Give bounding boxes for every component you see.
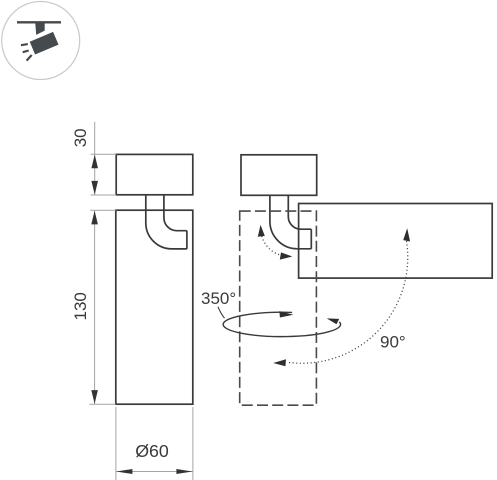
left view: mounting box — [116, 154, 193, 194]
dim D60: arrow left — [116, 469, 132, 474]
right view: arm socket line — [310, 229, 312, 249]
icon lamp body — [30, 32, 59, 55]
svg-text:Ø60: Ø60 — [135, 441, 169, 461]
right view: dashed body position rectangle — [240, 211, 317, 405]
icon ceiling line — [17, 21, 61, 23]
350 arrow right (top middle) — [279, 311, 293, 317]
dim 130: arrow down — [91, 390, 98, 404]
right view: arm outer contour — [270, 195, 311, 249]
icon ray 1 — [21, 44, 28, 45]
dim D60: dimension line — [116, 471, 192, 473]
left view: arm outer contour — [146, 195, 187, 249]
small arc arrow right — [280, 252, 293, 259]
svg-text:130: 130 — [71, 292, 90, 320]
90 deg rotation arc (dotted) — [287, 241, 408, 363]
dim D60: extension line right — [192, 407, 194, 480]
svg-text:90°: 90° — [380, 333, 406, 352]
dim D60: arrow right — [176, 469, 192, 474]
right view: arm inner contour — [288, 195, 311, 229]
350 arrow upper-left (right end) — [327, 318, 340, 324]
90 arc arrow up — [403, 228, 410, 241]
dim D60: extension line left — [115, 407, 117, 480]
svg-text:350°: 350° — [201, 289, 236, 308]
small arc arrow up — [258, 225, 265, 237]
svg-text:30: 30 — [71, 128, 90, 147]
left view: body cylinder — [116, 210, 193, 404]
dim 130: extension line bottom — [90, 403, 116, 405]
left view: arm inner contour — [164, 195, 187, 231]
icon stem — [35, 22, 45, 35]
right view: body cylinder horizontal — [299, 204, 493, 279]
dim 130: extension line top — [90, 209, 116, 211]
dim 30: extension line bottom — [91, 194, 117, 196]
icon ray 2 — [23, 51, 29, 53]
350 deg rotation ellipse arc — [223, 312, 340, 336]
left view: arm socket line — [186, 231, 188, 249]
icon: ceiling-spot pictogram circle — [2, 2, 80, 80]
dim 30: arrow down — [91, 181, 98, 195]
dim 130: arrow up — [91, 211, 98, 225]
small rotation arc near arm (dotted) — [262, 236, 281, 255]
dim 30: arrow up — [91, 155, 98, 169]
dim 30: extension line top — [91, 153, 117, 155]
dim 130: dimension line — [94, 211, 96, 404]
350 label leader line — [218, 307, 225, 318]
right view: mounting box — [241, 155, 317, 196]
dim 30: dimension line — [94, 122, 96, 195]
90 arc arrow left — [273, 359, 286, 366]
icon ray 3 — [27, 55, 32, 61]
